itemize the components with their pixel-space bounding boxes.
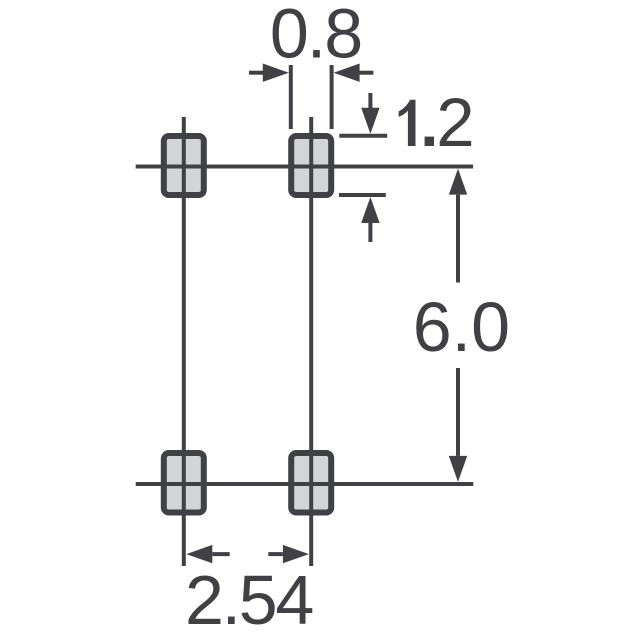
svg-text:0.8: 0.8 [270, 0, 361, 73]
svg-text:2: 2 [436, 84, 474, 161]
svg-text:6.0: 6.0 [413, 288, 510, 366]
svg-text:2.54: 2.54 [185, 561, 312, 639]
